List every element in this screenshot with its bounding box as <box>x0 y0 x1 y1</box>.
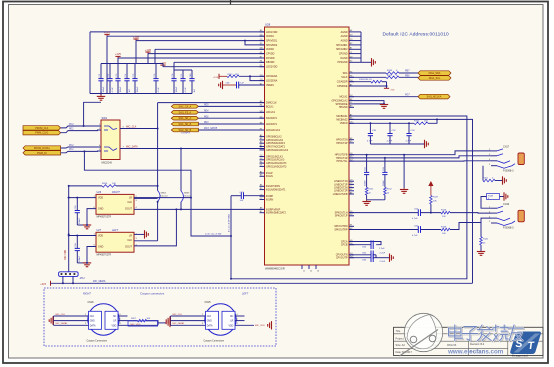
U28 pin D8 AVDD2 <box>260 48 265 50</box>
svg-text:+2V5: +2V5 <box>104 31 111 34</box>
wire MICBIAS2 loop <box>349 119 473 283</box>
capacitor C68 1uF <box>236 82 238 89</box>
ST logo <box>510 332 541 355</box>
resistor R157 0 <box>349 76 386 78</box>
svg-text:MCLK1: MCLK1 <box>340 96 349 99</box>
svg-text:CPCB: CPCB <box>341 244 348 247</box>
U28 pin C8 IN1RP <box>260 195 265 197</box>
node cap top rail <box>101 63 163 65</box>
ground CN25 left <box>170 316 172 325</box>
capacitor C34 4.7uF <box>408 123 410 133</box>
svg-text:SB55: SB55 <box>184 193 190 195</box>
U28 pin A6 IN2LP/VRXN <box>260 185 265 187</box>
svg-text:SPKOUTLP: SPKOUTLP <box>335 215 348 218</box>
wire U27 VDD <box>69 235 96 237</box>
U28 pin E3 SPKVDD2 <box>260 44 265 46</box>
wire MIC_DATA vertical <box>180 149 182 192</box>
svg-text:+1V8: +1V8 <box>145 49 152 52</box>
microphone U27 LEFT body <box>96 232 134 252</box>
svg-text:SPKGND1: SPKGND1 <box>336 44 348 47</box>
wire CPVDD <box>148 53 265 55</box>
svg-text:R160: R160 <box>414 120 420 122</box>
ground U27 <box>77 262 87 264</box>
wire U27 GND <box>87 247 96 263</box>
wire U26 VDD <box>69 197 96 199</box>
svg-text:4.7uF: 4.7uF <box>412 218 418 220</box>
node DIG1_SDA label <box>418 71 451 76</box>
U28 pin F5 BCLK1 <box>260 105 265 107</box>
U28 pin B9 LDO1VDD <box>260 31 265 33</box>
svg-text:U28: U28 <box>265 23 271 27</box>
CN25 pin 5 LR <box>235 320 245 322</box>
wire SAI1_SD_B <box>198 123 264 125</box>
svg-text:SDA: SDA <box>343 72 348 75</box>
ground AGND <box>371 58 373 66</box>
U28 pin D9 LINEOUT1P <box>349 183 354 185</box>
resistor R147 10K <box>430 187 432 196</box>
svg-text:CPVDD: CPVDD <box>266 53 275 56</box>
svg-text:the dac of DFSDM1: the dac of DFSDM1 <box>227 213 230 232</box>
svg-text:DACDAT1: DACDAT1 <box>266 117 278 120</box>
U28 pin C4 LDO1ENA <box>260 75 265 77</box>
U28 pin C7 LINEOUT2N <box>349 187 354 189</box>
wire U26 CLK <box>134 197 158 199</box>
power +1V2 <box>162 65 164 67</box>
svg-text:LEFT: LEFT <box>242 293 249 296</box>
wire MIC_MEMS net <box>51 282 473 284</box>
svg-text:SCLK: SCLK <box>341 76 348 79</box>
svg-text:HPGND: HPGND <box>339 106 348 109</box>
wire AVDD1 <box>107 35 265 37</box>
U28 pin F7 ADCLRCLK1 <box>260 129 265 131</box>
svg-text:U27: U27 <box>97 229 102 232</box>
svg-text:SPKVDD1: SPKVDD1 <box>266 40 278 43</box>
U28 pin B3 SPKGND1 <box>349 44 354 46</box>
node DIG1_SCL label <box>418 76 451 81</box>
CN17 switch contacts <box>497 149 503 151</box>
node SAI1_FS_A label <box>171 111 198 115</box>
svg-text:SPKGND2: SPKGND2 <box>336 48 348 51</box>
U28 pin G1 SPKOUTLN <box>349 212 354 214</box>
capacitor C76 4.7uF <box>155 64 157 79</box>
svg-text:CN25: CN25 <box>205 301 212 304</box>
connector JP12 body <box>59 272 79 277</box>
wire AVDD2 <box>155 48 265 50</box>
svg-text:SB54: SB54 <box>161 193 167 195</box>
U28 pin A8 IN2RP/VRXP <box>260 208 265 210</box>
ground hpout filter <box>362 201 370 203</box>
svg-text:PE2: PE2 <box>69 128 74 130</box>
wire SAI1_FS_A <box>198 111 264 113</box>
U28 pin B1 GPIO7/ADCDAT2 <box>260 146 265 148</box>
ground CN26 right <box>158 322 167 324</box>
wire DCVDD <box>118 57 265 59</box>
capacitor C71 100nF <box>100 64 102 79</box>
CN19 barrel <box>518 210 524 222</box>
resistor R159 4K7 <box>227 75 239 78</box>
svg-text:CPVOUTP: CPVOUTP <box>336 257 348 260</box>
svg-text:DIG1_SDA: DIG1_SDA <box>429 72 441 75</box>
svg-text:SAI1_SD_A: SAI1_SD_A <box>178 117 191 120</box>
svg-text:100nF: 100nF <box>365 179 367 186</box>
svg-text:IN2LN/DMICDAT1: IN2LN/DMICDAT1 <box>266 189 286 192</box>
wire AGND collect <box>354 31 361 33</box>
coupon connectors dashed box <box>44 288 276 346</box>
node PWM_DI label <box>23 151 61 155</box>
U28 pin C5 SPKVDD1 <box>260 40 265 42</box>
svg-text:Project:: Project: <box>396 337 405 341</box>
node SAI1_MCLKA label <box>418 94 450 99</box>
U28 pin B8 GPIO2/MCLK2 <box>349 100 354 102</box>
svg-text:Coupon connectors: Coupon connectors <box>140 292 165 296</box>
svg-text:MB1248: MB1248 <box>447 344 457 347</box>
svg-text:MIC_DATA: MIC_DATA <box>126 145 138 148</box>
wire PC1 to SW1 pin5 <box>61 151 101 153</box>
svg-text:4.7uF: 4.7uF <box>406 141 412 143</box>
svg-text:RIGHT: RIGHT <box>83 293 91 296</box>
node MIC_VDD box <box>128 321 158 326</box>
svg-text:PDOM_DATA1: PDOM_DATA1 <box>34 147 51 150</box>
CN17 barrel <box>518 153 524 165</box>
capacitor C72 4.7uF <box>109 64 111 79</box>
resistor R162 0 <box>482 166 484 181</box>
svg-text:MIC_DATA1: MIC_DATA1 <box>56 322 69 325</box>
U28 pin G2 SPKOUTLP <box>349 215 354 217</box>
ground jack CN19 top <box>503 192 505 200</box>
svg-text:DBVDD: DBVDD <box>266 61 275 64</box>
ground U26 <box>77 224 87 226</box>
svg-text:CLK: CLK <box>127 201 132 204</box>
CN26 left block <box>89 311 102 329</box>
wire hpout filter gnd rail <box>367 199 385 201</box>
svg-text:100nF: 100nF <box>137 86 139 93</box>
wire SPKVDD2 <box>245 41 265 45</box>
U28 pin D7 LDO2VDD <box>260 66 265 68</box>
SW1 pin 1 <box>98 125 102 127</box>
SW1 pin 7 MIC_DATA out <box>120 148 265 150</box>
SW1 contacts <box>104 126 113 130</box>
svg-text:AVDD1: AVDD1 <box>266 35 274 38</box>
svg-text:HPOUT1L: HPOUT1L <box>336 160 348 163</box>
svg-text:GND: GND <box>98 246 104 249</box>
svg-text:4.7uF: 4.7uF <box>112 86 114 92</box>
CN25 right block <box>222 311 235 329</box>
svg-text:PJ306B-3: PJ306B-3 <box>503 227 514 230</box>
svg-text:HPOUT2P: HPOUT2P <box>336 142 348 145</box>
capacitor C78 100nF <box>173 70 175 79</box>
U28 pin A6 LINEOUT2FB <box>349 193 354 195</box>
svg-text:DGND: DGND <box>340 57 347 60</box>
svg-text:AGND: AGND <box>341 35 348 38</box>
svg-text:R152: R152 <box>387 189 393 191</box>
U28 pin F8 SCLK <box>349 76 354 78</box>
svg-text:PE6: PE6 <box>204 116 209 118</box>
ground jack CN17 <box>502 176 504 184</box>
U28 pin E4 AGND <box>349 31 354 33</box>
wire SB55 to DOUT <box>180 202 182 209</box>
svg-text:WM8994ECS/R: WM8994ECS/R <box>265 267 285 271</box>
svg-text:100nF: 100nF <box>79 217 81 224</box>
node SAI1_SD_A label <box>171 116 198 120</box>
svg-text:100nF: 100nF <box>120 86 122 93</box>
wire LDO2ENA <box>250 76 265 80</box>
ground charge pump <box>389 254 391 262</box>
svg-text:SAI1_MCLKA: SAI1_MCLKA <box>427 96 442 99</box>
U28 pin G8 CS/ADDR <box>349 81 354 83</box>
U28 pin A1 GPIO6/ADCLRCLK2 <box>260 149 265 151</box>
svg-text:PWM_CLK1: PWM_CLK1 <box>35 132 49 135</box>
capacitor C85 2.2uF <box>349 254 371 256</box>
connector CN19 pins <box>491 207 497 209</box>
svg-text:LR: LR <box>113 321 116 323</box>
capacitor C63 100nF <box>384 158 386 173</box>
wire SPKVDD1 <box>136 40 265 42</box>
U28 pin E8 HPOUT2N <box>349 139 354 141</box>
svg-text:JP12: JP12 <box>80 278 86 280</box>
U28 pin B5 IN2LN/DMICDAT1 <box>260 189 265 191</box>
svg-text:MIC_DATA1: MIC_DATA1 <box>173 322 186 325</box>
svg-text:2.2uF: 2.2uF <box>379 248 385 250</box>
svg-text:+1V8: +1V8 <box>133 36 140 39</box>
wire PC2 to SW1 pin1 <box>61 126 84 128</box>
svg-text:R157: R157 <box>387 75 393 77</box>
capacitor C84 2.2uF <box>349 242 381 245</box>
svg-text:LR: LR <box>230 321 233 323</box>
U28 pin G3 CPVOUTN <box>349 254 354 256</box>
svg-text:To MFX: To MFX <box>181 131 190 135</box>
wire MCLK1 <box>349 96 418 98</box>
svg-text:PE3: PE3 <box>204 122 209 124</box>
SW1 pin 5 <box>98 150 102 152</box>
U28 pin G5 CPCA <box>349 241 354 243</box>
CN26 pin 3 MIC_DATA1 <box>54 324 89 326</box>
svg-text:VMICD: VMICD <box>340 122 348 125</box>
svg-text:R145: R145 <box>483 239 489 241</box>
svg-text:100nF: 100nF <box>176 86 178 93</box>
connector CN17 pins <box>491 150 497 152</box>
U28 pin F3 DBVDD <box>260 61 265 63</box>
U28 pin H2 SPKOUTRP <box>349 229 354 231</box>
CN25 pin 2 GND <box>171 320 206 322</box>
U28 pin E7 DCVDD <box>260 57 265 59</box>
svg-text:IN1LN: IN1LN <box>266 175 273 178</box>
svg-text:+1V8: +1V8 <box>213 77 219 79</box>
svg-text:CN19: CN19 <box>503 203 510 206</box>
solder bridge SB54 <box>158 191 160 202</box>
svg-text:DATA: DATA <box>90 324 96 327</box>
U28 pin F6 SDA <box>349 72 354 74</box>
svg-text:GND: GND <box>207 321 212 323</box>
svg-text:LRCLK1: LRCLK1 <box>266 111 276 114</box>
wire PE2 to SW1 pin2 <box>61 130 101 133</box>
wire SW1 pin1 to ground net <box>84 102 101 126</box>
resistor R156 0 <box>349 72 386 74</box>
svg-text:R138: R138 <box>441 227 447 229</box>
U28 pin G6 CPCB <box>349 244 354 246</box>
U28 pin D2 DGND <box>349 57 354 59</box>
CN19 switch contacts <box>497 206 503 208</box>
node cap top rail 2 <box>174 69 192 71</box>
capacitor C38 4.7uF <box>369 123 371 133</box>
capacitor C55 4.7uF <box>349 212 418 214</box>
connector CN26 circle <box>88 304 119 335</box>
svg-text:SAI1_CK_A: SAI1_CK_A <box>178 105 191 108</box>
wire JP12 stubs down <box>62 276 64 283</box>
wire SAI1_CK_A <box>198 105 264 107</box>
svg-text:PJ306B-3: PJ306B-3 <box>503 169 514 172</box>
svg-text:CLK: CLK <box>127 239 132 242</box>
power vbias arrow <box>428 181 433 186</box>
U28 pin D7 LINEOUT2P <box>349 190 354 192</box>
svg-text:PWM_DI: PWM_DI <box>37 152 47 155</box>
U28 pin F9 HPOUT1R <box>349 157 354 159</box>
svg-text:MICBIAS2: MICBIAS2 <box>336 118 348 121</box>
wire MIC_VDD trunk <box>68 186 70 272</box>
svg-text:PB8: PB8 <box>405 75 410 77</box>
wire PC2 to SW1 pin4 <box>61 147 101 148</box>
svg-text:R165/2K4,1%: R165/2K4,1% <box>359 79 372 81</box>
svg-text:4.7uF: 4.7uF <box>158 86 160 92</box>
SW1 pin 4 <box>98 146 102 148</box>
U28 pin C9 LINEOUT1N <box>349 180 354 182</box>
svg-text:SPKVDD2: SPKVDD2 <box>266 44 278 47</box>
CN25 pin 1 MIC_CLK <box>171 315 206 317</box>
U28 pin G7 HPOUT1L <box>349 160 354 162</box>
svg-text:LDO1VDD: LDO1VDD <box>266 31 278 34</box>
svg-text:R206: R206 <box>102 183 108 185</box>
resistor R138 100 <box>441 228 450 231</box>
svg-text:PC2: PC2 <box>69 124 74 126</box>
power +1V5 <box>117 56 119 58</box>
svg-text:MIC VDD: MIC VDD <box>65 249 67 259</box>
svg-text:IN2RN/DMICDAT2: IN2RN/DMICDAT2 <box>266 212 287 215</box>
svg-text:DIG1_SCL: DIG1_SCL <box>429 77 441 80</box>
svg-text:LDO2VDD: LDO2VDD <box>266 66 278 69</box>
U28 pin F2 SPKMODE <box>349 103 354 105</box>
svg-text:Revision: B-2: Revision: B-2 <box>470 343 485 346</box>
svg-text:MFX_GPIO5: MFX_GPIO5 <box>204 128 218 130</box>
svg-text:SW1: SW1 <box>102 116 108 120</box>
svg-text:ADCDAT1: ADCDAT1 <box>266 123 278 126</box>
resistor R206 10K <box>69 185 102 187</box>
watermark logo circle <box>400 313 443 356</box>
power +1V8 <box>135 39 137 41</box>
svg-text:life.augmented: life.augmented <box>512 355 528 358</box>
U28 pin F1 CPVDD <box>260 53 265 55</box>
svg-text:www.elecfans.com: www.elecfans.com <box>447 348 504 355</box>
node PWM_CLK1 label <box>23 131 61 135</box>
svg-text:to the dac of SAI: to the dac of SAI <box>205 233 222 236</box>
svg-text:100nF: 100nF <box>103 86 105 93</box>
node SAI1_SD_B label <box>171 122 198 126</box>
solder bridge SB55 <box>181 191 183 202</box>
svg-text:4.7uF: 4.7uF <box>185 86 187 92</box>
svg-text:DMICCLK: DMICCLK <box>266 102 277 105</box>
svg-text:MIC_MEMS: MIC_MEMS <box>93 281 106 283</box>
svg-text:DCVDD: DCVDD <box>266 57 275 60</box>
ground VREFC <box>222 81 224 89</box>
svg-text:R161: R161 <box>483 178 489 180</box>
svg-text:CN17: CN17 <box>503 146 510 149</box>
svg-text:VDD: VDD <box>98 197 103 200</box>
svg-text:1uF: 1uF <box>240 200 244 202</box>
svg-text:PB7: PB7 <box>405 71 410 73</box>
svg-text:SPKOUTRP: SPKOUTRP <box>334 228 348 231</box>
wire SAI2_SD_B <box>198 129 264 131</box>
svg-text:LR: LR <box>129 197 132 200</box>
svg-text:GND: GND <box>90 321 95 323</box>
svg-text:LDO1ENA: LDO1ENA <box>266 75 278 78</box>
U28 pin E1 GPIO12/DACDAT3 <box>260 162 265 164</box>
svg-text:NC: NC <box>230 316 234 318</box>
U28 pin E6 ADCDAT1 <box>260 123 265 125</box>
capacitor C80 1uF <box>191 70 193 79</box>
svg-text:100nF: 100nF <box>79 255 81 262</box>
U28 pin A3 GPIO8/BCLK2 <box>260 136 265 138</box>
wire DMICCLK <box>158 102 265 104</box>
U28 pin A7 IN1LP <box>260 172 265 174</box>
U28 pin D6 AVDD1 <box>260 35 265 37</box>
node SAI1_CK_A label <box>171 105 198 109</box>
CN26 pin 2 GND <box>54 320 89 322</box>
svg-text:IN1RN: IN1RN <box>266 198 273 201</box>
svg-text:CLK: CLK <box>90 316 95 318</box>
wire loop SW1 to SAI <box>84 151 231 236</box>
U28 pin B4 DMICCLK <box>260 102 265 104</box>
U28 pin A2 GPIO5/DACDAT2 <box>260 142 265 144</box>
node PDOM_CLK label <box>23 126 61 130</box>
U28 bottom pins <box>301 265 303 269</box>
svg-text:Size: A4: Size: A4 <box>396 344 406 347</box>
svg-text:Coupon Connectors: Coupon Connectors <box>87 340 108 343</box>
svg-text:VDD: VDD <box>111 325 116 327</box>
power +2V5 <box>106 35 108 37</box>
wire CPMODE <box>349 85 387 87</box>
svg-text:CLK: CLK <box>207 316 212 318</box>
ground SPKMODE <box>380 104 388 106</box>
op-amp U28 audio codec WM8994 body <box>265 27 350 265</box>
svg-text:LDO2ENA: LDO2ENA <box>266 80 278 83</box>
svg-text:R147: R147 <box>433 197 439 199</box>
svg-text:GPIO13/ADCDAT3: GPIO13/ADCDAT3 <box>266 165 287 168</box>
svg-text:4.7uF: 4.7uF <box>367 141 373 143</box>
U28 pin A9 HPGND <box>349 106 354 108</box>
wire HPOUT1FB <box>349 151 491 155</box>
capacitor C73 100nF <box>117 64 119 79</box>
U28 pin C8 VMICD <box>349 122 354 124</box>
ground micbias caps <box>424 140 426 148</box>
wire MICBIAS1 loop <box>231 116 467 279</box>
CN25 pin 3 MIC_DATA1 <box>171 324 206 326</box>
ground CN26 left <box>53 316 55 325</box>
wire C77 net vertical <box>230 196 232 279</box>
svg-text:GND: GND <box>98 208 104 211</box>
svg-text:RIGHT: RIGHT <box>112 191 120 194</box>
title block lines <box>394 333 544 335</box>
U28 pin C6 LRCLK1 <box>260 111 265 113</box>
svg-text:4.7uF: 4.7uF <box>387 141 393 143</box>
svg-text:+1V5: +1V5 <box>115 53 122 56</box>
U28 pin A7 MICBIAS1 <box>349 115 354 117</box>
power 2V5 pulldown <box>386 82 388 89</box>
wire HPOUT1L <box>349 160 491 162</box>
U28 pin B6 MICBIAS2 <box>349 118 354 120</box>
U28 pin G9 HPOUT1FB <box>349 154 354 156</box>
svg-text:CPGND: CPGND <box>339 53 348 56</box>
resistor R146 100 <box>441 211 450 214</box>
svg-text:R207: R207 <box>131 318 137 320</box>
capacitor C86 2.2uF <box>349 257 371 259</box>
